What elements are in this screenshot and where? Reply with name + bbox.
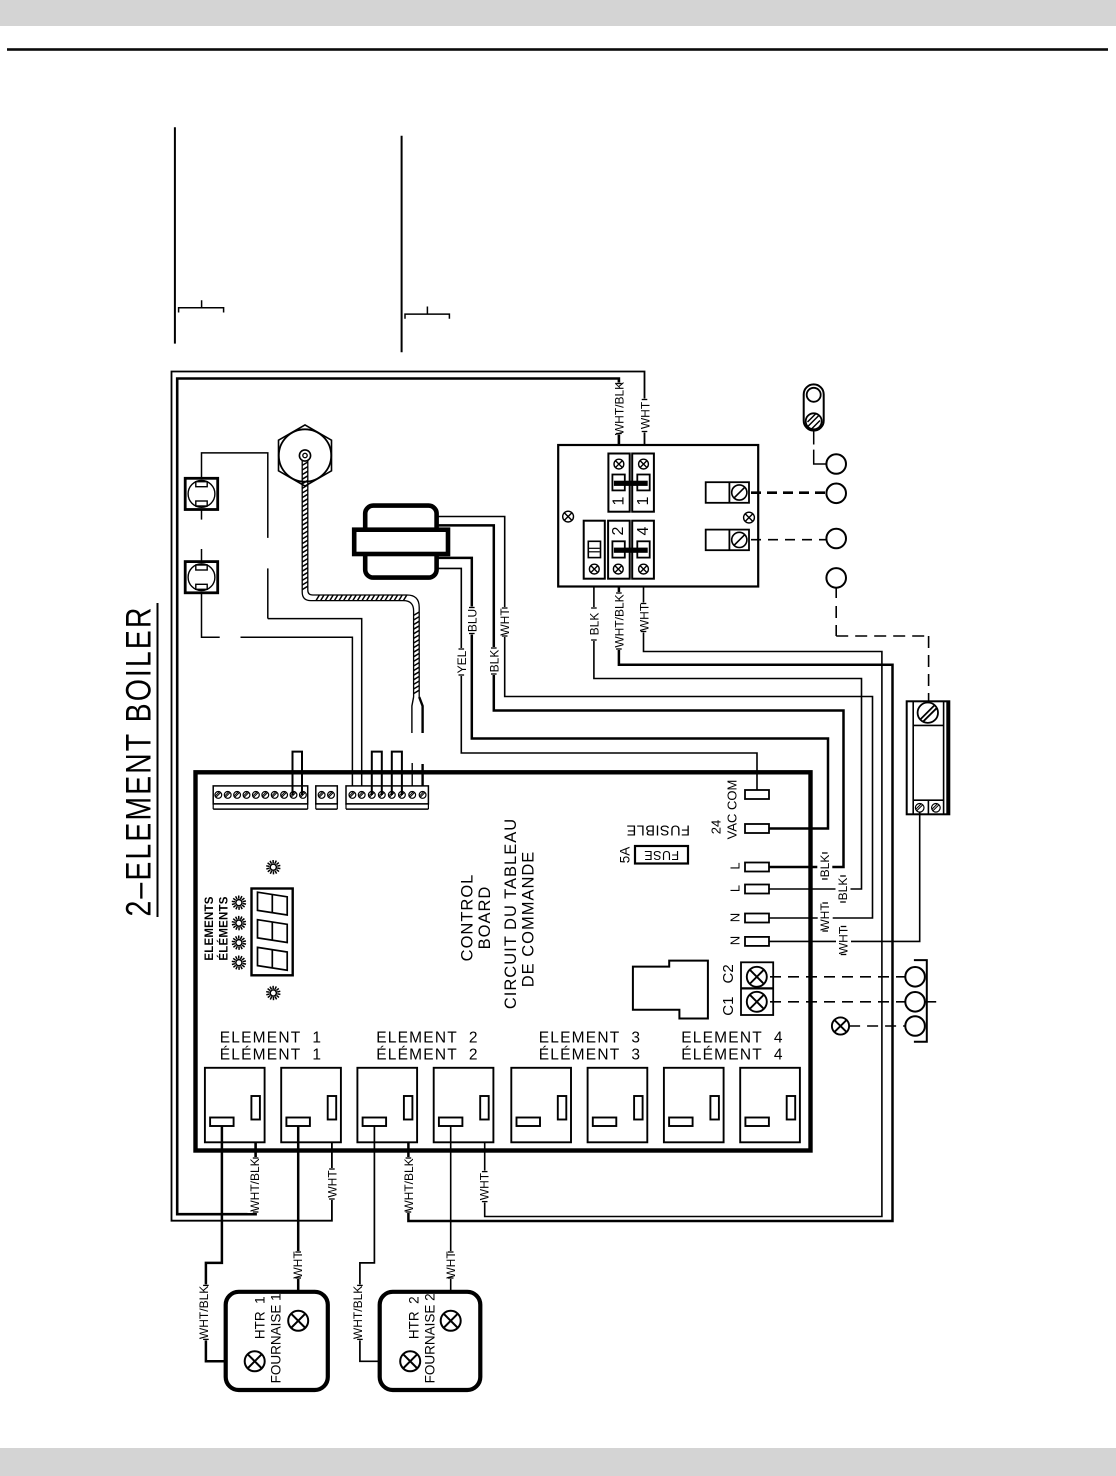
gland nut hexagon: [279, 425, 332, 486]
wire BLU transformer to 24VAC terminal: [437, 558, 828, 829]
label WHT/BLK htr2: [351, 1284, 366, 1340]
svg-text:WHT: WHT: [477, 1172, 491, 1200]
label FUSIBLE: [626, 822, 690, 838]
svg-text:FOURNAISE 1: FOURNAISE 1: [269, 1293, 284, 1383]
svg-text:N: N: [728, 913, 743, 922]
terminal strip TS2: [316, 786, 338, 809]
svg-text:1: 1: [635, 496, 652, 505]
label YEL: [454, 648, 469, 676]
jacket bracket left: [179, 300, 224, 312]
svg-text:ÉLÉMENT 1: ÉLÉMENT 1: [220, 1046, 322, 1063]
terminal block C1 C2: [741, 962, 773, 1015]
junction box mounting screw left: [563, 511, 574, 522]
jacket bracket right: [405, 307, 449, 319]
label BLK pad L2: [836, 875, 851, 903]
capillary between switches: [201, 510, 203, 562]
dashed wire lug2 to field circle 3: [751, 539, 826, 541]
label WHT relay4: [477, 1171, 492, 1203]
label BLK jbox: [587, 607, 602, 641]
element relay box 3: [357, 1068, 417, 1143]
svg-text:BLK: BLK: [487, 650, 501, 673]
fuse F1: [635, 846, 688, 864]
gland center ferrule: [299, 450, 310, 461]
wire BLK transformer to L terminal: [437, 525, 844, 867]
svg-text:WHT: WHT: [325, 1170, 339, 1198]
svg-text:BLK: BLK: [588, 613, 602, 636]
LED element 3: [232, 936, 246, 950]
label BLU: [465, 607, 480, 635]
wire WHT junction box to element relay 4: [485, 569, 882, 1216]
fuse link bar upper: [614, 481, 648, 486]
svg-text:WHT/BLK: WHT/BLK: [613, 594, 627, 647]
label WHT/BLK relay3: [401, 1157, 416, 1213]
svg-text:2: 2: [610, 526, 627, 535]
svg-text:ÉLÉMENTS: ÉLÉMENTS: [217, 896, 230, 960]
svg-text:2–ELEMENT BOILER: 2–ELEMENT BOILER: [119, 606, 158, 917]
svg-text:WHT: WHT: [291, 1251, 305, 1279]
svg-text:WHT: WHT: [638, 401, 652, 429]
field circle 1: [826, 454, 846, 474]
LED element 2: [232, 916, 246, 930]
label WHT pad N2: [836, 926, 851, 956]
label WHT jbox: [637, 603, 652, 633]
dashed wire C1 to field circle 6: [770, 1001, 905, 1003]
svg-text:HTR 2: HTR 2: [407, 1296, 422, 1339]
fuse holder strip 1L: [608, 454, 629, 512]
HTR1 terminal 1: [245, 1351, 265, 1371]
wire WHT perimeter (element relay 2 to junction box terminal 1R): [172, 372, 645, 1221]
svg-text:WHT/BLK: WHT/BLK: [402, 1158, 416, 1211]
element relay box 1: [205, 1068, 265, 1143]
label HTR 1 FOURNAISE 1: [253, 1293, 284, 1383]
braided sensor cable: [302, 456, 419, 697]
title underline: [157, 603, 159, 917]
label CIRCUIT DU TABLEAU DE COMMANDE: [502, 818, 537, 1009]
label CONTROL BOARD: [459, 874, 494, 962]
bracket field circles: [914, 960, 927, 1042]
LED top: [266, 860, 280, 874]
label ELEMENT 2: [376, 1029, 478, 1063]
svg-text:WHT/BLK: WHT/BLK: [197, 1286, 211, 1339]
svg-text:L: L: [728, 885, 743, 892]
svg-text:N: N: [728, 936, 743, 945]
element relay box 7: [664, 1068, 724, 1143]
dashed wire ground screw to field circle 7: [849, 1025, 905, 1027]
spare fuse holder strip: [584, 521, 605, 579]
wire WHT/BLK relay3 to HTR2: [360, 1126, 400, 1361]
label WHT/BLK htr1: [197, 1284, 212, 1340]
wire aquastat to N terminal: [769, 812, 920, 941]
svg-text:ÉLÉMENT 4: ÉLÉMENT 4: [681, 1046, 783, 1063]
svg-text:BLK: BLK: [818, 855, 832, 878]
element relay box 2: [281, 1068, 341, 1143]
svg-text:4: 4: [635, 526, 652, 535]
label WHT top: [638, 399, 653, 433]
label ELEMENTS FR: [217, 896, 230, 960]
limit switch S2: [185, 562, 218, 593]
wire WHT/BLK junction box to element relay 3: [408, 569, 892, 1221]
svg-text:CIRCUIT DU TABLEAU: CIRCUIT DU TABLEAU: [502, 818, 520, 1009]
label WHT pad N1: [818, 902, 833, 932]
field circle 5: [905, 967, 925, 987]
junction box enclosure: [558, 445, 758, 587]
fuse holder strip 4: [632, 521, 654, 579]
label BLK pad L1: [817, 852, 832, 880]
svg-text:WHT: WHT: [498, 608, 512, 636]
label N N: [728, 913, 743, 945]
wire capsule to field circle 1: [814, 431, 827, 464]
terminal pad L1: [745, 863, 769, 872]
junction box lug block 1: [706, 482, 749, 503]
svg-text:1: 1: [610, 496, 627, 505]
jacket line left: [174, 127, 176, 343]
junction box mounting screw right: [744, 512, 755, 523]
LED element 1: [232, 896, 246, 910]
title 2-ELEMENT BOILER: [119, 606, 158, 917]
label BLK left: [487, 647, 502, 675]
terminal pad N2: [745, 937, 769, 946]
element relay box 8: [740, 1068, 800, 1143]
svg-text:BLU: BLU: [465, 609, 479, 632]
svg-text:L: L: [728, 862, 743, 869]
wire WHT/BLK perimeter (element relay 1 to junction box terminal 1L): [177, 379, 619, 1215]
terminal pad L2: [745, 885, 769, 894]
label WHT/BLK top: [612, 382, 627, 435]
svg-text:FOURNAISE 2: FOURNAISE 2: [423, 1293, 438, 1383]
jumper TS1 9-10: [293, 752, 303, 795]
dashed wire field circle 4 to aquastat: [836, 588, 928, 702]
svg-text:WHT: WHT: [818, 903, 832, 931]
label ELEMENT 4: [681, 1029, 783, 1063]
svg-text:VAC COM: VAC COM: [725, 780, 740, 840]
field circle 2: [826, 484, 846, 504]
label C1 C2: [720, 964, 737, 1015]
terminal strip TS1: [213, 786, 308, 809]
svg-text:ELEMENT 1: ELEMENT 1: [220, 1029, 322, 1046]
svg-text:WHT: WHT: [444, 1251, 458, 1279]
field circle 4: [826, 568, 846, 588]
wire WHT transformer to N terminal: [437, 517, 873, 919]
svg-text:ELEMENT 4: ELEMENT 4: [681, 1029, 783, 1046]
transformer T1: [354, 506, 448, 578]
svg-text:ELEMENT 2: ELEMENT 2: [376, 1029, 478, 1046]
seven segment display: [252, 889, 293, 976]
wire YEL transformer to COM terminal: [437, 568, 757, 790]
svg-text:C1: C1: [720, 997, 737, 1016]
connector housing: [633, 961, 708, 1019]
control board outline: [196, 772, 811, 1150]
wire from limit switch 2 to control board terminal: [202, 593, 353, 795]
label WHT htr1: [291, 1251, 306, 1279]
wire WHT relay4 to HTR2: [450, 1126, 452, 1311]
svg-text:WHT: WHT: [837, 926, 851, 954]
field circle 3: [826, 529, 846, 549]
terminal pad 24VAC: [745, 824, 769, 833]
svg-text:HTR 1: HTR 1: [253, 1296, 268, 1339]
svg-text:YEL: YEL: [455, 650, 469, 673]
svg-text:ELEMENT 3: ELEMENT 3: [539, 1029, 641, 1046]
jumper TS3 3-4: [372, 752, 382, 795]
terminal pad N1: [745, 914, 769, 923]
svg-text:BLK: BLK: [836, 878, 850, 901]
field circle 7: [905, 1016, 925, 1036]
label L L: [728, 862, 743, 892]
limit switch S1: [185, 478, 218, 509]
label ELEMENT 3: [539, 1029, 641, 1063]
element relay box 4: [434, 1068, 494, 1143]
label WHT relay2: [325, 1168, 340, 1200]
label ELEMENT 1: [220, 1029, 322, 1063]
field circle 6: [905, 992, 925, 1012]
fuse link bar lower: [614, 548, 648, 553]
label HTR 2 FOURNAISE 2: [407, 1293, 438, 1383]
svg-text:WHT/BLK: WHT/BLK: [351, 1286, 365, 1339]
label WHT/BLK jbox: [612, 592, 627, 650]
header rule: [7, 48, 1108, 51]
svg-text:5A: 5A: [618, 847, 633, 864]
svg-text:WHT: WHT: [637, 603, 651, 631]
svg-text:WHT/BLK: WHT/BLK: [248, 1158, 262, 1211]
LED bottom: [266, 986, 280, 1000]
heater HTR2: [380, 1292, 481, 1390]
ground screw: [832, 1017, 849, 1034]
sensor conductor to terminal 8: [419, 697, 422, 795]
svg-text:ÉLÉMENT 2: ÉLÉMENT 2: [376, 1046, 478, 1063]
jacket line right: [401, 136, 403, 352]
svg-text:FUSIBLE: FUSIBLE: [626, 822, 690, 838]
dashed wire C2 to field circle 5: [770, 976, 905, 978]
svg-text:CONTROL: CONTROL: [459, 874, 477, 962]
fuse holder strip 1R: [632, 454, 654, 512]
svg-text:ELEMENTS: ELEMENTS: [204, 896, 216, 960]
wire BLK junction box to L terminal: [594, 569, 862, 889]
header bar: [0, 0, 1116, 26]
element relay box 5: [511, 1068, 571, 1143]
tick field circle 6: [925, 1001, 936, 1003]
dashed wire lug1 to field circle 2: [751, 491, 826, 494]
terminal strip TS3: [346, 786, 428, 809]
fuse holder strip 2: [608, 521, 630, 579]
jumper TS3 5-6: [392, 752, 402, 795]
wire WHT relay2 to HTR1: [297, 1126, 300, 1311]
svg-text:WHT/BLK: WHT/BLK: [613, 382, 627, 435]
LED element 4: [232, 956, 246, 970]
svg-text:ÉLÉMENT 3: ÉLÉMENT 3: [539, 1046, 641, 1063]
svg-text:DE COMMANDE: DE COMMANDE: [520, 851, 538, 988]
label WHT left: [498, 607, 513, 637]
svg-text:BOARD: BOARD: [476, 886, 494, 950]
wire WHT/BLK relay1 to HTR1: [206, 1126, 245, 1361]
terminal pad COM: [745, 790, 769, 799]
svg-text:FUSE: FUSE: [644, 848, 679, 862]
junction box lug block 2: [706, 530, 749, 551]
label WHT htr2: [443, 1251, 458, 1279]
field wire capsule lug: [804, 384, 824, 430]
aquastat terminal block: [907, 701, 950, 814]
svg-text:24: 24: [709, 820, 724, 834]
HTR2 terminal 1: [400, 1351, 420, 1371]
label ELEMENTS: [204, 896, 216, 960]
wire from limit switch 1 top to control board terminal: [202, 453, 362, 795]
element relay box 6: [588, 1068, 648, 1143]
label 24 VAC COM: [709, 780, 740, 840]
sensor conductor to terminal 7: [412, 697, 414, 795]
label 5A: [618, 847, 633, 864]
HTR2 terminal 2: [441, 1311, 461, 1331]
HTR1 terminal 2: [288, 1311, 308, 1331]
heater HTR1: [226, 1292, 328, 1390]
svg-text:C2: C2: [720, 964, 737, 983]
label WHT/BLK relay1: [248, 1157, 263, 1213]
footer bar: [0, 1448, 1116, 1476]
